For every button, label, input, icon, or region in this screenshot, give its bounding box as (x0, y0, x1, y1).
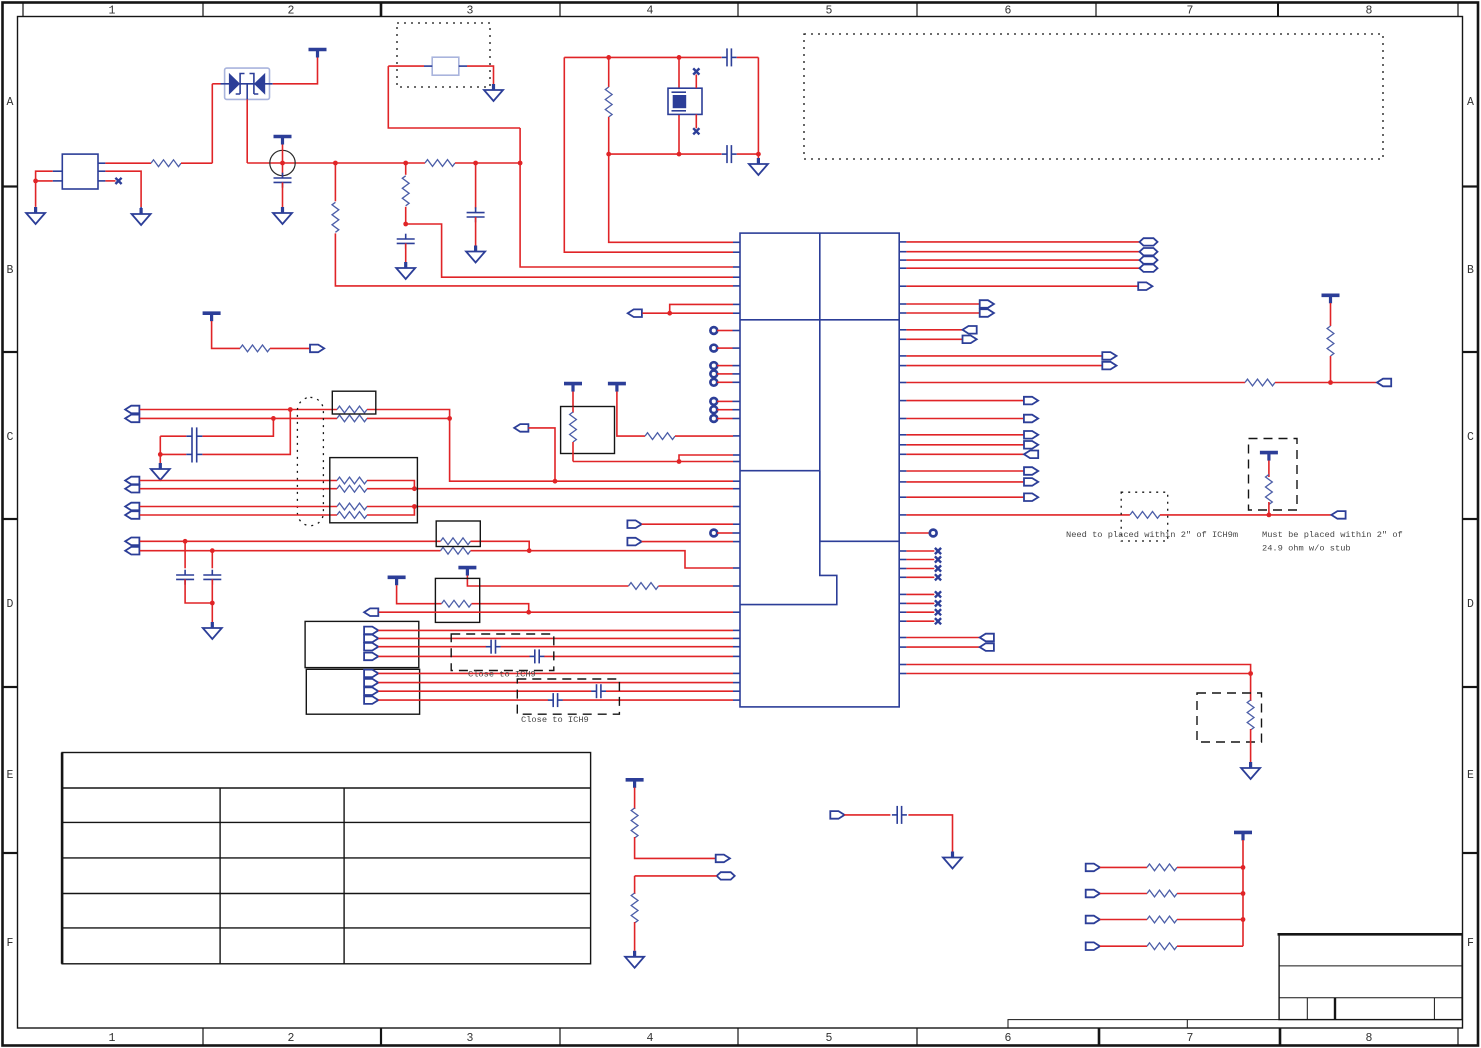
resistor R17 (629, 583, 659, 590)
wire C8 left (160, 435, 186, 437)
connector in series R (1086, 864, 1100, 872)
resistor R16 (441, 547, 471, 554)
circle pin (710, 406, 717, 413)
junction R3/C4 node (403, 222, 408, 227)
coupling cap C8 net b (202, 418, 273, 436)
wire to fuse F1 left (388, 65, 424, 67)
crystal Y1 nc pin bottom (695, 114, 697, 128)
wire R3r (906, 259, 1139, 261)
wire cap net b (908, 815, 952, 852)
circle pin (710, 415, 717, 422)
connector out arrow (1138, 282, 1152, 290)
connector out (1102, 362, 1116, 370)
connector in (1024, 451, 1038, 459)
wire R15r (906, 434, 1024, 436)
revision table row line 5 (62, 927, 591, 929)
dotted option box fuse (397, 23, 490, 87)
resistor R9 (337, 406, 367, 413)
resistor R3 (402, 176, 409, 206)
connector out (1024, 397, 1038, 405)
connector in SPI a (627, 520, 641, 528)
connector in series R (1086, 890, 1100, 898)
junction rail at FB1 (280, 161, 285, 166)
svg-text:A: A (1467, 96, 1474, 109)
resistor R6 on rail (425, 160, 455, 167)
crystal Y1 bottom pin (678, 114, 680, 154)
wire R18 out (472, 604, 529, 613)
termination box R18 (435, 578, 479, 622)
coupling cap C8 net (202, 410, 290, 455)
wire crystal bottom (609, 153, 722, 155)
connector in group A (364, 635, 378, 643)
svg-text:Close to ICH9: Close to ICH9 (521, 715, 589, 725)
resistor R14 (337, 512, 367, 519)
connector in LAN (364, 608, 378, 616)
wire crystal net to ICH (609, 154, 733, 242)
connector in group A (364, 627, 378, 635)
connector out (980, 309, 994, 317)
circle pin right (930, 530, 937, 537)
wire to resistor (1100, 919, 1147, 921)
junction R21/R22 (1267, 513, 1272, 518)
dashed box stub resistor (1249, 439, 1298, 511)
title block top thick edge (1278, 933, 1464, 936)
svg-text:7: 7 (1187, 5, 1194, 18)
ground G5 (466, 246, 485, 263)
wire TVS D1 output (273, 57, 318, 84)
power P3 (309, 50, 327, 58)
svg-text:F: F (1467, 937, 1474, 950)
wire pair2 a (140, 480, 337, 482)
power P9 (1322, 295, 1340, 303)
circle pin (710, 398, 717, 405)
resistor R24 (631, 808, 638, 838)
wire R21 out (1160, 514, 1331, 516)
wire TVS D1 bottom to rail (246, 99, 248, 163)
svg-text:C: C (7, 431, 14, 444)
wire R11 out (367, 481, 414, 489)
wire C4 to ground (405, 243, 407, 262)
power P8 (388, 577, 406, 585)
capacitor C12 (530, 649, 545, 663)
wire groupB 3a (378, 690, 591, 692)
circle pin (710, 371, 717, 378)
wire nc row (906, 576, 934, 578)
revision table row line 3 (62, 857, 591, 859)
capacitor C7 (722, 145, 737, 163)
resistor box R9/R10 (332, 391, 376, 414)
U1 internal divider horizontal full (740, 319, 899, 321)
junction bus 1 (1241, 865, 1246, 870)
connector out (1024, 415, 1038, 423)
junction crystal bottom right (756, 152, 761, 157)
border right band ticks (1463, 185, 1479, 187)
svg-text:2: 2 (288, 5, 295, 18)
wire hex to R25 (635, 875, 717, 877)
svg-text:6: 6 (1005, 1032, 1012, 1045)
U2 pin stub left 1 (53, 170, 63, 172)
junction crystal top left (606, 55, 611, 60)
connector in series R (1086, 916, 1100, 924)
svg-text:Need to placed within 2" of IC: Need to placed within 2" of ICH9m (1066, 530, 1238, 540)
TVS D1 outer box (225, 68, 270, 99)
connector in (1331, 511, 1345, 519)
wire R5r (906, 285, 1138, 287)
svg-text:5: 5 (826, 1032, 833, 1045)
junction rail C5 (473, 161, 478, 166)
connector in pair1 b (125, 415, 139, 423)
wire fuse net down to rail (388, 66, 520, 128)
junction R8 net (677, 459, 682, 464)
wire R34r (906, 673, 1250, 675)
junction bus 2 (1241, 891, 1246, 896)
junction U2 left (33, 179, 38, 184)
wire P12 down (1242, 840, 1244, 867)
wire R13 out (367, 506, 414, 508)
junction pair2 merge (412, 486, 417, 491)
title block cell divider c (1433, 998, 1435, 1020)
resistor R18 (442, 600, 472, 607)
fuse F1 leads (424, 65, 467, 67)
wire R16r (906, 444, 1024, 446)
circle pin (710, 345, 717, 352)
resistor R23 (1247, 700, 1254, 730)
connector in (980, 643, 994, 651)
power P3 stem (317, 51, 319, 58)
ground G6 (484, 84, 503, 101)
connector out cap net (830, 811, 844, 819)
no-connect X (935, 609, 941, 615)
connector in pair3 b (125, 511, 139, 519)
resistor R4 (240, 345, 270, 352)
revision table left thick edge (61, 753, 64, 964)
capacitor C3 (274, 173, 292, 188)
svg-text:4: 4 (647, 1032, 654, 1045)
wire R12 out (367, 488, 414, 490)
revision strip line (1008, 1020, 1279, 1028)
wire groupA 3a (378, 646, 486, 648)
svg-text:8: 8 (1366, 5, 1373, 18)
wire CLK connector (528, 428, 555, 481)
revision table column line 2 (343, 788, 345, 964)
wire R20 down (1330, 356, 1332, 383)
resistor R11 (337, 477, 367, 484)
wire nc row (906, 559, 934, 561)
resistor R20 (1327, 326, 1334, 356)
no-connect X crystal bottom (693, 128, 699, 134)
wire nc row (906, 620, 934, 622)
capacitor C15 (892, 806, 907, 824)
connector out (716, 855, 730, 863)
junction pair3 merge (412, 504, 417, 509)
junction pair1 b (271, 416, 276, 421)
ground G7 (749, 158, 768, 175)
junction R19/R20 (1328, 380, 1333, 385)
svg-text:E: E (7, 769, 14, 782)
TVS D1 left diode (229, 73, 240, 95)
revision table row line 1 (62, 787, 591, 789)
wire U2 left pins join (36, 171, 53, 207)
svg-text:A: A (7, 96, 14, 109)
wire R10r (906, 355, 1102, 357)
wire R25 down (634, 922, 636, 951)
ground G11 (625, 951, 644, 968)
connector in pair2 b (125, 485, 139, 493)
resistor R29 (1147, 943, 1177, 950)
no-connect X (935, 556, 941, 562)
wire pair2 b (140, 488, 337, 490)
dashed box close-to-ICH9 2 (517, 679, 619, 714)
wire pair1 down to U1 (450, 418, 733, 481)
dashed box close-to-ICH9 1 (451, 634, 554, 671)
wire up to TVS D1 anode (211, 84, 213, 163)
resistor R21 (1130, 512, 1160, 519)
wire R8 down (572, 442, 574, 462)
junction crystal top pin (677, 55, 682, 60)
capacitor C6 (722, 48, 737, 66)
circle pin (710, 362, 717, 369)
title block cell divider b (1334, 998, 1336, 1020)
title block row divider 2 (1279, 997, 1462, 999)
revision table column line 1 (219, 788, 221, 964)
junction pair1 a (288, 407, 293, 412)
svg-text:2: 2 (288, 1032, 295, 1045)
connector in (980, 634, 994, 642)
connector out (1024, 441, 1038, 449)
wire C5 to ground (475, 217, 477, 246)
svg-text:4: 4 (647, 5, 654, 18)
wire C6 to corner (737, 56, 759, 58)
svg-text:7: 7 (1187, 1032, 1194, 1045)
wire R6r (906, 303, 979, 305)
connector out (1024, 467, 1038, 475)
connector in group A (364, 653, 378, 661)
no-connect X (935, 618, 941, 624)
power P2 (274, 137, 292, 145)
circle pin L23 (710, 530, 717, 537)
wire R32r (906, 646, 979, 648)
wire USB to U1 (529, 551, 733, 568)
connector out hex 4 (1140, 265, 1158, 272)
wire C7 to corner (737, 153, 759, 155)
svg-text:5: 5 (826, 5, 833, 18)
wire R21r (906, 514, 1130, 516)
power P7 (458, 568, 476, 576)
wire groupB 1 (378, 672, 733, 674)
no-connect X (935, 600, 941, 606)
svg-text:Must be placed within 2" of: Must be placed within 2" of (1262, 530, 1403, 540)
junction R33/R34 (1248, 671, 1253, 676)
circle pin (710, 327, 717, 334)
svg-text:F: F (7, 937, 14, 950)
U1 internal block step (740, 471, 837, 605)
svg-text:Close to ICH9: Close to ICH9 (468, 670, 536, 680)
U1 internal divider left (740, 470, 820, 472)
wire to resistor (1100, 945, 1147, 947)
border bottom band ticks (202, 1028, 204, 1046)
ground G9 (203, 622, 222, 639)
wire LAN to U1 (379, 611, 733, 613)
capacitor C9 (176, 570, 194, 585)
wire R18r (906, 470, 1024, 472)
svg-text:1: 1 (109, 5, 116, 18)
wire to resistor (1100, 893, 1147, 895)
wire main rail b (455, 162, 520, 164)
dotted option box top right (804, 34, 1383, 159)
wire main rail a (247, 162, 425, 164)
junction USB b cap (210, 548, 215, 553)
wire R8 net branch up (679, 455, 733, 462)
connector out PLT_RST (310, 345, 324, 353)
circle pin (710, 379, 717, 386)
connector in group B (364, 687, 378, 695)
connector in pair3 a (125, 503, 139, 511)
title block row divider 1 (1279, 965, 1462, 967)
connector group box B (306, 669, 419, 714)
power P5 (564, 384, 582, 392)
title block cell divider a (1306, 998, 1308, 1020)
junction C8 ground (158, 452, 163, 457)
wire SPI b (642, 541, 733, 543)
wire U2 pin2 to ground (105, 171, 141, 207)
wire R33r (906, 665, 1250, 702)
wire R11r (906, 365, 1102, 367)
wire rail end down to ICH pin (520, 128, 733, 267)
revision strip tick (1186, 1020, 1188, 1028)
wire R19 out (1275, 382, 1377, 384)
U1 left pin stubs (733, 242, 741, 700)
wire P10 down (1268, 461, 1270, 478)
resistor R25 (631, 893, 638, 923)
resistor R28 (1147, 916, 1177, 923)
resistor box R15/R16 (436, 521, 480, 547)
wire to resistor (1100, 866, 1147, 868)
wire nc row (906, 602, 934, 604)
junction pair1/connector (553, 479, 558, 484)
wire resistor to bus (1177, 866, 1243, 868)
wire R5 bottom lead (608, 117, 610, 154)
wire R17 to U1 (659, 585, 734, 587)
wire groupA 3b (501, 646, 733, 648)
wire USB a (140, 540, 441, 542)
wire U2 out to R1 (105, 162, 151, 164)
power P10 (1260, 453, 1278, 461)
junction C9/C10 (210, 601, 215, 606)
connector in pair1 a (125, 406, 139, 414)
resistor R5 (605, 87, 612, 117)
resistor R19 (1245, 379, 1275, 386)
wire groupA 4b (544, 655, 733, 657)
capacitor C5 (467, 207, 485, 222)
wire R14r (906, 418, 1024, 420)
resistor box R11-R14 (330, 458, 418, 523)
wire cap net a (844, 814, 890, 816)
junction USB a cap (183, 539, 188, 544)
svg-text:1: 1 (109, 1032, 116, 1045)
resistor R7 (645, 433, 675, 440)
capacitor C8 plates (186, 427, 202, 462)
U1 internal divider right (820, 540, 899, 542)
wire R9r (906, 338, 962, 340)
junction GPIO pair (667, 311, 672, 316)
wire fuse F1 right to ground (467, 66, 494, 84)
svg-text:D: D (1467, 598, 1474, 611)
wire R20r (906, 496, 1024, 498)
junction LAN/R18 (526, 610, 531, 615)
crystal Y1 top pin (678, 57, 680, 88)
wire resistor to bus (1177, 919, 1243, 921)
capacitor C14 (548, 693, 563, 707)
connector group box A (305, 621, 419, 667)
connector bidir hex (717, 872, 735, 879)
U1 internal divider vertical (819, 233, 821, 541)
svg-text:8: 8 (1366, 1032, 1373, 1045)
wire groupB 4b (563, 699, 733, 701)
connector in SPI b (627, 538, 641, 546)
wire R19r (906, 481, 1024, 483)
connector out (1024, 478, 1038, 486)
TVS D1 right diode (254, 73, 265, 95)
wire P8 down (397, 585, 442, 604)
junction rail R2 (333, 161, 338, 166)
TVS D1 center line (221, 83, 273, 85)
wire R9 out (367, 410, 450, 419)
crystal Y1 element (673, 95, 687, 108)
wire nc row (906, 593, 934, 595)
wire node to ICH pin (406, 224, 733, 277)
U2 pin stub right 2 (98, 170, 105, 172)
resistor R13 (337, 503, 367, 510)
no-connect X (935, 548, 941, 554)
wire nc row (906, 611, 934, 613)
wire R4 to connector (270, 347, 310, 349)
capacitor C9 net (184, 541, 186, 568)
no-connect X (935, 565, 941, 571)
revision table row line 2 (62, 821, 591, 823)
wire crystal left rail to ICH (564, 57, 733, 252)
wire groupA 2 (378, 637, 733, 639)
ICH9M U1 body (740, 233, 899, 707)
wire U2 pin3 stub (105, 180, 115, 182)
wire groupA 4a (378, 655, 529, 657)
wire R4r (906, 267, 1139, 269)
wire R7 to U1 (675, 435, 733, 437)
wire R22r (906, 532, 929, 534)
connector out hex 3 (1140, 256, 1158, 263)
wire R22 down (1268, 502, 1270, 515)
wire crystal right vertical (757, 57, 759, 154)
dotted box place-near (1121, 492, 1168, 541)
wire C8 left down (159, 436, 161, 463)
wire groupB 3b (606, 690, 733, 692)
revision table outline (62, 753, 591, 964)
wire P2 to FB1 (282, 145, 284, 179)
connector out (963, 336, 977, 344)
U2 pin stub right 1 (98, 162, 105, 164)
no-connect X (935, 574, 941, 580)
resistor R8 vertical (572, 407, 574, 413)
svg-text:3: 3 (467, 1032, 474, 1045)
wire GPIO pair (642, 312, 733, 314)
wire pair3 to U1 (414, 506, 733, 508)
svg-text:24.9 ohm w/o stub: 24.9 ohm w/o stub (1262, 544, 1351, 554)
wire R1r (906, 241, 1139, 243)
fuse F1 body (432, 57, 459, 75)
junction USB merge (527, 548, 532, 553)
wire R7r (906, 312, 979, 314)
resistor R22 (1266, 475, 1273, 505)
wire R25 top (634, 876, 636, 894)
